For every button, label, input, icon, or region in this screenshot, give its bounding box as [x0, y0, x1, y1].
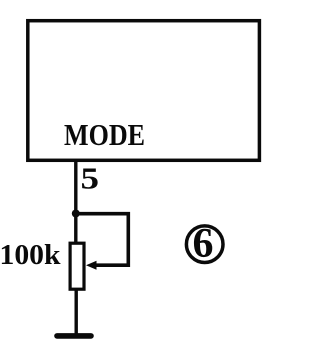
svg-text:5: 5 [81, 161, 100, 196]
wire resistor bottom to ground [74, 289, 77, 336]
svg-text:MODE: MODE [64, 117, 145, 152]
block U1 (MODE box) [28, 21, 260, 161]
wiper arrow [86, 261, 97, 270]
pin 5 [81, 161, 100, 196]
svg-text:6: 6 [193, 221, 214, 267]
node junction [72, 210, 80, 218]
label MODE [64, 117, 145, 152]
figure number 6 (circled) [186, 221, 223, 267]
wire wiper loop (junction right, down, left to arrow) [76, 214, 129, 266]
resistor R1 100k (potentiometer body) [70, 243, 84, 289]
svg-text:100k: 100k [0, 240, 61, 271]
wire pin5 (box bottom to resistor top) [74, 160, 77, 244]
value 100k [0, 240, 61, 271]
ground [57, 333, 91, 339]
